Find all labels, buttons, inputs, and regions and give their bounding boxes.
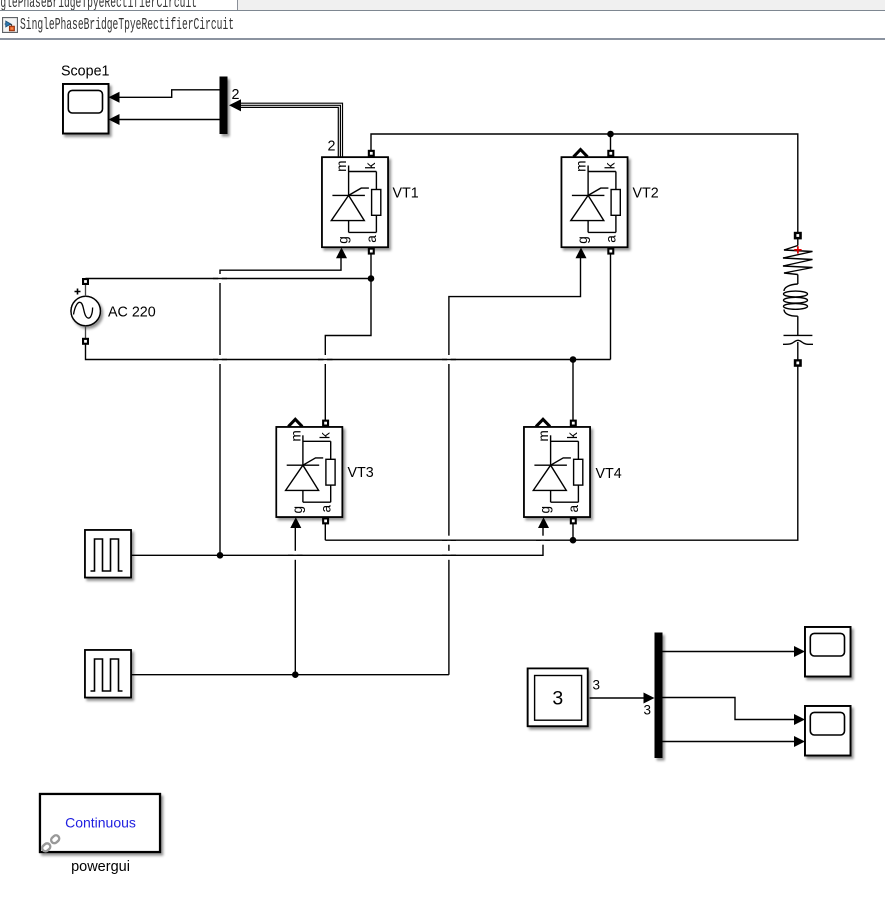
svg-text:2: 2 <box>328 139 336 155</box>
svg-text:Scope1: Scope1 <box>61 63 110 79</box>
svg-text:3: 3 <box>552 687 563 709</box>
svg-text:VT2: VT2 <box>633 186 659 202</box>
svg-text:VT1: VT1 <box>393 186 419 202</box>
svg-text:AC 220: AC 220 <box>108 305 156 321</box>
svg-text:Continuous: Continuous <box>65 815 136 831</box>
svg-text:powergui: powergui <box>71 859 130 875</box>
svg-text:3: 3 <box>644 703 652 718</box>
svg-text:3: 3 <box>593 678 601 693</box>
svg-text:VT3: VT3 <box>348 465 374 481</box>
svg-text:VT4: VT4 <box>596 466 622 482</box>
svg-text:2: 2 <box>232 87 240 103</box>
